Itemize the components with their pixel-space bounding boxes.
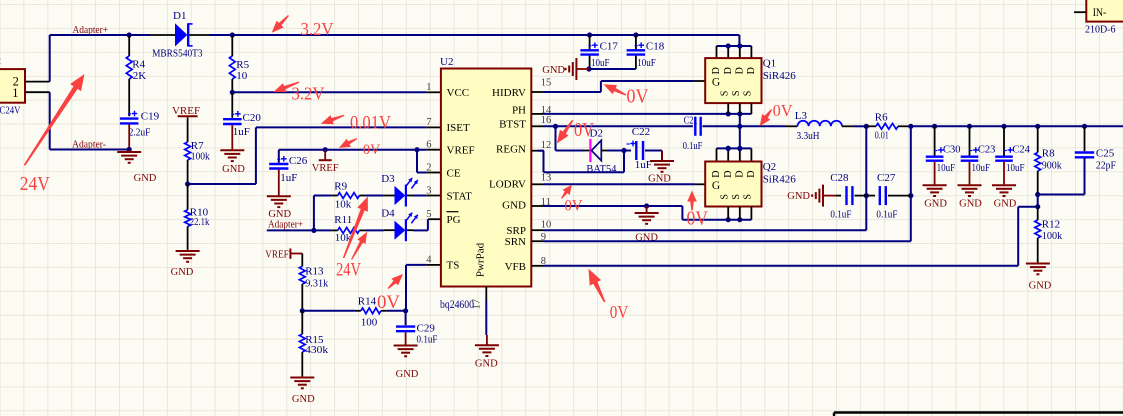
svg-text:BTST: BTST	[499, 119, 526, 131]
svg-text:0.1uF: 0.1uF	[876, 209, 897, 221]
svg-text:1uF: 1uF	[635, 159, 652, 171]
svg-text:G: G	[712, 76, 720, 88]
svg-text:GND: GND	[502, 200, 526, 212]
svg-text:SiR426: SiR426	[763, 70, 797, 82]
svg-text:1: 1	[12, 86, 18, 100]
svg-text:C21: C21	[684, 116, 698, 127]
svg-text:900k: 900k	[1042, 159, 1062, 171]
svg-text:10uF: 10uF	[1006, 163, 1025, 174]
svg-text:GND: GND	[171, 267, 194, 278]
svg-text:430k: 430k	[305, 344, 329, 356]
svg-text:C30: C30	[943, 144, 961, 155]
svg-text:TS: TS	[447, 260, 460, 272]
svg-text:ISET: ISET	[447, 122, 471, 134]
svg-text:PwrPad: PwrPad	[475, 242, 487, 277]
svg-text:0.01: 0.01	[875, 129, 889, 141]
svg-text:0V: 0V	[377, 292, 400, 313]
svg-text:R9: R9	[334, 180, 347, 192]
svg-text:100k: 100k	[1042, 230, 1063, 242]
svg-text:D: D	[734, 67, 745, 74]
svg-text:GND: GND	[542, 65, 565, 76]
svg-text:10uF: 10uF	[937, 163, 956, 174]
svg-text:0V: 0V	[687, 207, 709, 229]
svg-text:D: D	[723, 170, 734, 177]
svg-text:R6: R6	[875, 112, 888, 124]
svg-text:D: D	[746, 67, 757, 74]
svg-text:SRN: SRN	[505, 236, 526, 248]
svg-text:C23: C23	[978, 144, 996, 155]
svg-text:12: 12	[541, 140, 552, 151]
svg-text:S: S	[743, 91, 754, 97]
svg-text:U2: U2	[440, 56, 453, 68]
svg-text:C24: C24	[1012, 144, 1030, 155]
svg-text:bq24600: bq24600	[440, 297, 474, 311]
svg-text:GND: GND	[292, 394, 315, 405]
svg-text:0.1uF: 0.1uF	[683, 141, 703, 152]
svg-text:R12: R12	[1042, 218, 1060, 230]
svg-text:0V: 0V	[574, 119, 594, 141]
svg-text:22.1k: 22.1k	[190, 216, 210, 228]
svg-text:15: 15	[541, 77, 552, 88]
svg-text:1uF: 1uF	[280, 172, 297, 184]
svg-text:S: S	[719, 91, 730, 97]
svg-text:24V: 24V	[20, 173, 50, 195]
svg-text:4: 4	[426, 255, 432, 266]
svg-text:G: G	[712, 180, 720, 192]
svg-text:5: 5	[426, 209, 431, 220]
svg-text:GND: GND	[994, 198, 1017, 209]
svg-text:D4: D4	[381, 208, 395, 220]
svg-text:GND: GND	[396, 369, 419, 380]
svg-text:Q1: Q1	[763, 57, 776, 69]
svg-text:REGN: REGN	[496, 144, 526, 156]
svg-text:3.2V: 3.2V	[301, 19, 334, 39]
svg-text:D: D	[711, 170, 722, 177]
svg-text:0V: 0V	[363, 142, 381, 158]
svg-text:C19: C19	[141, 111, 160, 123]
svg-text:R14: R14	[358, 295, 377, 307]
svg-text:R13: R13	[305, 265, 324, 277]
svg-text:GND: GND	[959, 198, 982, 209]
svg-text:S: S	[743, 194, 754, 200]
svg-text:24V: 24V	[336, 261, 361, 281]
svg-text:CE: CE	[447, 167, 461, 179]
svg-text:10: 10	[541, 220, 552, 231]
svg-text:3.2V: 3.2V	[292, 83, 325, 103]
svg-text:GND: GND	[1029, 281, 1052, 292]
svg-text:LODRV: LODRV	[489, 179, 526, 191]
svg-text:C27: C27	[877, 172, 896, 184]
svg-text:R11: R11	[334, 214, 352, 226]
svg-text:VFB: VFB	[505, 261, 526, 273]
svg-text:0.01V: 0.01V	[350, 112, 391, 133]
svg-text:1uF: 1uF	[233, 126, 250, 138]
svg-text:0.1uF: 0.1uF	[417, 334, 438, 346]
svg-text:17: 17	[472, 299, 483, 310]
svg-text:R8: R8	[1042, 148, 1055, 160]
svg-text:GND: GND	[787, 191, 810, 202]
svg-text:7: 7	[426, 117, 431, 128]
svg-text:GND: GND	[222, 164, 245, 175]
svg-text:GND: GND	[134, 173, 157, 184]
svg-text:GND: GND	[924, 198, 947, 209]
svg-text:IN-: IN-	[1093, 5, 1107, 19]
svg-text:0.1uF: 0.1uF	[830, 209, 851, 221]
svg-text:VREF: VREF	[447, 145, 475, 157]
svg-text:0V: 0V	[565, 197, 583, 214]
svg-text:Adapter+: Adapter+	[268, 218, 303, 230]
svg-text:VREF: VREF	[312, 163, 339, 174]
svg-text:Adapter-: Adapter-	[72, 139, 106, 151]
svg-text:D3: D3	[381, 173, 395, 185]
svg-text:210D-6: 210D-6	[1085, 24, 1116, 36]
svg-text:HIDRV: HIDRV	[492, 87, 526, 99]
svg-text:C17: C17	[600, 41, 619, 53]
svg-text:2: 2	[0, 55, 1, 67]
svg-text:10: 10	[236, 70, 248, 82]
svg-text:22pF: 22pF	[1096, 159, 1116, 171]
svg-text:10uF: 10uF	[637, 57, 656, 69]
svg-text:R4: R4	[132, 59, 145, 71]
svg-text:C22: C22	[632, 126, 650, 138]
svg-text:PG: PG	[447, 214, 461, 226]
svg-text:S: S	[731, 91, 742, 97]
svg-text:S: S	[731, 194, 742, 200]
svg-text:MBRS540T3: MBRS540T3	[152, 47, 203, 59]
svg-text:C20: C20	[243, 112, 262, 124]
svg-text:L3: L3	[795, 110, 808, 122]
svg-text:100: 100	[361, 317, 378, 329]
svg-text:C24V: C24V	[0, 104, 21, 116]
svg-text:2: 2	[426, 162, 431, 173]
svg-text:0V: 0V	[773, 101, 794, 120]
svg-text:C26: C26	[289, 155, 308, 167]
svg-text:2K: 2K	[133, 70, 147, 82]
svg-text:SiR426: SiR426	[763, 173, 797, 185]
svg-text:0V: 0V	[627, 86, 649, 107]
svg-text:VREF: VREF	[265, 248, 289, 260]
svg-text:2.2uF: 2.2uF	[129, 126, 151, 138]
svg-text:C25: C25	[1096, 148, 1115, 160]
svg-text:13: 13	[541, 172, 552, 183]
svg-text:D: D	[734, 170, 745, 177]
svg-text:1: 1	[426, 82, 431, 93]
svg-text:C28: C28	[830, 172, 849, 184]
svg-text:10k: 10k	[335, 198, 352, 210]
svg-text:3.3uH: 3.3uH	[797, 130, 820, 142]
svg-text:S: S	[719, 194, 730, 200]
svg-text:D: D	[723, 67, 734, 74]
svg-text:10uF: 10uF	[972, 163, 991, 174]
svg-text:SRP: SRP	[506, 225, 526, 237]
svg-text:9.31k: 9.31k	[305, 277, 328, 289]
svg-text:VCC: VCC	[447, 87, 470, 99]
svg-text:Adapter+: Adapter+	[73, 24, 109, 36]
svg-text:3: 3	[426, 185, 431, 196]
svg-text:D1: D1	[173, 10, 186, 22]
svg-text:PH: PH	[512, 105, 526, 117]
svg-text:6: 6	[426, 140, 431, 151]
svg-text:0V: 0V	[610, 302, 629, 322]
svg-text:STAT: STAT	[447, 190, 473, 202]
svg-text:R5: R5	[236, 59, 249, 71]
svg-text:10uF: 10uF	[591, 57, 610, 69]
svg-text:Q2: Q2	[763, 161, 776, 173]
svg-text:100k: 100k	[191, 151, 210, 163]
svg-text:D: D	[746, 170, 757, 177]
svg-text:C18: C18	[646, 41, 665, 53]
svg-text:GND: GND	[475, 359, 498, 370]
svg-text:16: 16	[541, 115, 552, 126]
svg-text:D: D	[711, 67, 722, 74]
svg-text:GND: GND	[648, 173, 671, 184]
